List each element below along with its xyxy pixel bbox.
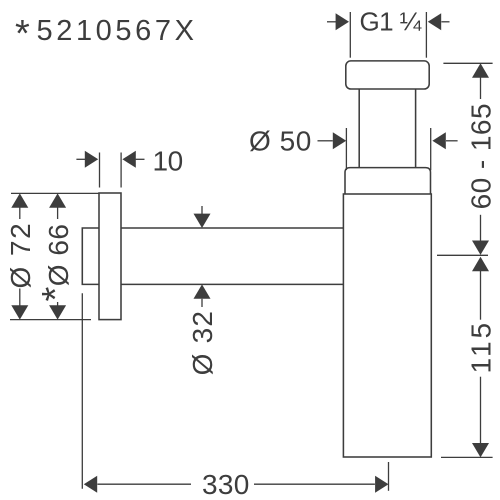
wall flange <box>99 193 121 320</box>
arrow pointing left at Ø50 <box>432 132 445 149</box>
extension line middle <box>437 254 488 256</box>
trap body <box>343 194 431 457</box>
dimension Ø72 <box>5 193 99 319</box>
dim tail right <box>136 158 145 160</box>
arrow pointing down 115 <box>472 443 489 457</box>
extension line bottom shared Ø72/Ø66 <box>10 319 91 321</box>
lower nut <box>345 168 431 194</box>
svg-text:115: 115 <box>466 320 497 374</box>
extension line left for 10 <box>99 153 101 188</box>
dim tail left <box>318 140 333 142</box>
svg-text:5210567X: 5210567X <box>37 15 198 47</box>
dimension 115 <box>441 257 497 458</box>
extension line top shared Ø72/Ø66 <box>11 192 100 194</box>
horizontal pipe bottom edge <box>121 283 343 285</box>
dim tail below pipe <box>201 299 203 307</box>
dimension 10 flange thickness <box>76 145 182 187</box>
dim tail left <box>76 158 85 160</box>
arrow pointing right 330 <box>375 476 388 493</box>
dim tail left <box>327 21 336 23</box>
extension line top at nut <box>443 62 492 64</box>
dim line lower segment Ø72 <box>19 289 21 307</box>
dim line lower segment <box>480 215 482 241</box>
threaded tube right edge <box>415 89 417 168</box>
arrow pointing up 115 <box>472 257 489 271</box>
horizontal pipe top edge <box>121 227 343 229</box>
extension line left of G1 1/4 <box>349 12 351 58</box>
dimension 330 <box>82 293 388 500</box>
arrow pointing left for 10 <box>122 151 135 168</box>
svg-text:Ø 50: Ø 50 <box>249 125 312 156</box>
arrow pointing down Ø72 <box>11 305 28 319</box>
extension line right for 10 <box>120 153 122 188</box>
arrow pointing down Ø66 <box>49 305 66 319</box>
dimension Ø50 <box>249 125 458 170</box>
dimension 60-165 <box>437 63 497 255</box>
svg-text:*: * <box>15 13 30 55</box>
dim line upper segment Ø66 <box>57 207 59 219</box>
dim line lower segment 115 <box>480 377 482 444</box>
svg-text:Ø 32: Ø 32 <box>187 310 218 376</box>
dim line upper segment 115 <box>480 270 482 319</box>
dimension Ø32 <box>187 206 218 375</box>
arrow pointing down 60-165 <box>472 241 489 255</box>
dimension G1 1/4 <box>327 7 450 58</box>
dim line lower segment Ø66 <box>57 302 59 306</box>
dim tail right <box>446 140 458 142</box>
dim line left segment 330 <box>97 483 191 485</box>
arrow pointing right at G thread <box>336 13 349 30</box>
arrow pointing right for 10 <box>85 151 98 168</box>
extension line right for Ø50 <box>430 128 432 170</box>
pipe stub into wall <box>82 228 99 284</box>
arrow pointing up 60-165 <box>472 63 489 77</box>
arrow pointing up Ø72 <box>11 193 28 207</box>
dim line upper segment <box>480 77 482 99</box>
dim tail above pipe <box>201 206 203 214</box>
arrow pointing up Ø32 <box>194 284 211 298</box>
dimension Ø66 <box>35 193 77 319</box>
extension line left wall <box>81 293 83 489</box>
svg-text:Ø 72: Ø 72 <box>5 222 36 289</box>
extension line bottom at body <box>441 456 493 458</box>
arrow pointing right at Ø50 <box>333 132 346 149</box>
dim tail right <box>441 21 449 23</box>
dim line right segment 330 <box>254 483 375 485</box>
extension line right body axis <box>388 462 390 491</box>
dim line upper segment Ø72 <box>19 207 21 219</box>
svg-text:G1 ¼: G1 ¼ <box>360 7 422 37</box>
svg-text:330: 330 <box>202 469 250 500</box>
threaded tube left edge <box>358 89 360 168</box>
extension line left for Ø50 <box>345 128 347 170</box>
extension line right of G1 1/4 <box>425 12 427 58</box>
svg-text:10: 10 <box>153 145 183 176</box>
arrow pointing left 330 <box>84 476 97 493</box>
top nut <box>346 61 429 89</box>
arrow pointing up Ø66 <box>49 193 66 207</box>
arrow pointing left at G thread <box>428 13 441 30</box>
arrow pointing down Ø32 <box>194 214 211 228</box>
svg-text:60 - 165: 60 - 165 <box>466 103 497 209</box>
